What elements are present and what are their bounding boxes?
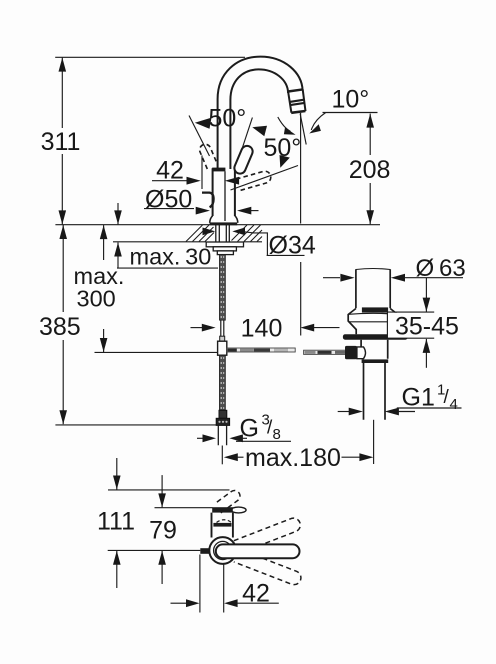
dimension max300 line lower [103, 329, 105, 352]
top extension line (spout apex level) [55, 56, 245, 58]
pivot outer circle [209, 537, 236, 564]
side view 79 upper arrow [161, 475, 163, 507]
dimension 311 line upper [61, 58, 63, 128]
dimension max300 line upper [103, 225, 105, 260]
body top dark band [212, 168, 225, 172]
50deg top arc left arrowhead [195, 118, 212, 129]
side view lever reference line [155, 507, 213, 509]
dimension 385 line lower [62, 340, 64, 424]
dimension 42 bottom right extension [223, 565, 225, 613]
side lever capsule [216, 544, 300, 558]
G1 1/4 dim right [385, 408, 399, 416]
svg-text:111: 111 [97, 508, 135, 536]
dimension 140 left [191, 327, 203, 329]
body base flare left [210, 216, 213, 223]
G38 dim right [229, 434, 243, 442]
flexible hose lower [220, 355, 226, 410]
G38 hose fitting hex [219, 410, 227, 418]
42 top arrowhead [187, 177, 201, 185]
dimension max30 lower arrow [117, 243, 119, 269]
svg-text:385: 385 [39, 313, 81, 341]
svg-text:42: 42 [242, 580, 270, 608]
dashed lever swung down [234, 549, 301, 585]
svg-text:max.180: max.180 [245, 444, 341, 472]
10deg arc right arrowhead [309, 124, 321, 133]
dimension 35-45 lower arrow [425, 339, 427, 368]
50deg fan right leg [237, 118, 252, 165]
plug stem [356, 269, 390, 308]
35-45 label box [388, 313, 457, 338]
G38 underline [236, 440, 291, 442]
side body inner dashed arc [217, 520, 232, 523]
35-45 box bottom line [387, 337, 434, 339]
dimension 42 top line [152, 180, 187, 182]
neck [356, 329, 390, 334]
svg-text:208: 208 [349, 156, 391, 184]
waste body [361, 340, 388, 359]
svg-text:G: G [240, 415, 259, 443]
50deg right arc upper arrowhead [252, 126, 267, 136]
50deg right arc lower arrowhead [280, 155, 290, 168]
faucet body outline [213, 168, 235, 216]
mounting nut [213, 247, 236, 251]
side rod nub [200, 548, 209, 554]
dimension 42 bottom left extension [199, 555, 201, 613]
dashed lever axis extension line [231, 166, 299, 191]
dimension 208 line upper [369, 114, 371, 155]
svg-text:4: 4 [450, 396, 458, 413]
140 right extension line [300, 262, 302, 336]
G38 thread tube [218, 425, 226, 445]
horizontal pop-up rod left [227, 348, 295, 352]
O50 right tail [250, 210, 259, 212]
aerator outlet line [291, 111, 305, 113]
flange [348, 309, 398, 330]
G1 1/4 dim left [338, 411, 349, 413]
dimension 311 line lower [61, 154, 63, 224]
aerator nozzle outline [288, 89, 305, 112]
svg-text:Ø 63: Ø 63 [416, 255, 466, 282]
svg-text:140: 140 [241, 315, 283, 343]
10deg arc right part [311, 113, 325, 130]
side view 111 upper arrow [116, 458, 118, 490]
dashed lever swung up [234, 518, 301, 553]
side view top reference line [108, 489, 230, 491]
solid lever [234, 146, 252, 174]
G38 hose fitting nut [216, 418, 229, 425]
max300 bottom reference line [95, 351, 218, 353]
svg-text:8: 8 [273, 426, 281, 443]
O34 left arrowhead [203, 228, 216, 236]
svg-text:50°: 50° [209, 105, 247, 133]
deck top line [55, 224, 380, 226]
knob collar [357, 347, 366, 359]
svg-text:35-45: 35-45 [395, 312, 459, 340]
dimension 140 right [300, 324, 314, 332]
horizontal pop-up rod right [304, 350, 346, 354]
side view rod reference line [108, 549, 201, 551]
O50 left arrowhead [196, 207, 210, 215]
deck bottom line [113, 241, 206, 243]
42 bottom dim right [224, 599, 238, 607]
svg-text:42: 42 [156, 157, 184, 185]
O50 right arrowhead [237, 207, 251, 215]
nozzle outlet extension line [300, 113, 302, 224]
plug cap band [362, 307, 388, 312]
nozzle axis extension line [300, 114, 306, 145]
dimension max30 upper arrow [117, 203, 119, 224]
max180 dim right arrowhead [342, 456, 361, 458]
svg-text:Ø50: Ø50 [145, 186, 192, 214]
svg-text:79: 79 [149, 517, 177, 545]
O34 leader [244, 232, 305, 256]
rod knob [345, 346, 357, 359]
max30 label underline [117, 267, 218, 269]
svg-text:50°: 50° [264, 134, 302, 162]
dimension 385 line upper [62, 225, 64, 312]
35-45 box top line [387, 311, 434, 313]
42 top extension line [201, 155, 203, 189]
10deg reference line [323, 112, 378, 114]
drain centerline [373, 420, 375, 464]
O63 dim line right / underline [391, 274, 405, 282]
rod cross fitting [220, 336, 225, 341]
threaded shank through deck [206, 225, 243, 255]
svg-text:max. 30: max. 30 [130, 244, 212, 270]
svg-text:311: 311 [41, 128, 81, 156]
G38 dim left [197, 437, 203, 439]
body cartridge line [224, 171, 226, 221]
dimension 208 line lower [369, 183, 371, 224]
side view 111 lower arrow [116, 551, 118, 588]
side lever tip ellipse [231, 507, 246, 513]
50deg arc left part [278, 117, 291, 132]
body base flare right [235, 216, 238, 223]
pop-rod hook behind body [202, 193, 214, 208]
aerator band line mid2 [290, 103, 304, 105]
spout inner curve [230, 69, 288, 169]
deck hatching [186, 225, 262, 242]
35-45 box left edge [386, 312, 388, 338]
body bottom band [362, 359, 389, 363]
385 bottom reference line [55, 424, 216, 426]
horseshoe washer [206, 242, 243, 247]
dashed lever up-left [200, 144, 218, 169]
aerator band line mid1 [290, 100, 304, 102]
O63 dim line left [323, 277, 340, 279]
aerator band line top [288, 89, 303, 91]
dashed spout side view [214, 491, 240, 513]
dimension 35-45 upper arrow [425, 278, 427, 312]
50deg arc left arrowhead [284, 128, 296, 135]
O34 right arrowhead [232, 228, 245, 236]
nut lower collar [217, 251, 233, 255]
side view 79 lower arrow [161, 551, 163, 584]
50deg fan left leg [189, 116, 210, 157]
tailpipe [364, 363, 386, 420]
max180 dim left arrowhead [224, 453, 238, 461]
faucet hose centerline lower [221, 446, 223, 465]
G1 1/4 underline [397, 407, 462, 409]
O50 underline [144, 208, 194, 210]
pivot inner circle [214, 541, 232, 559]
svg-text:Ø34: Ø34 [269, 232, 316, 260]
spout outer curve [218, 57, 303, 169]
dashed lever right [237, 171, 271, 190]
svg-text:G1: G1 [402, 384, 435, 412]
svg-text:10°: 10° [332, 86, 370, 114]
svg-text:300: 300 [77, 286, 116, 312]
42 bottom dim left [171, 602, 187, 604]
seat ring [343, 334, 408, 340]
side body [212, 513, 233, 538]
pop-up rod vertical [218, 320, 227, 355]
side body dark band [213, 523, 231, 527]
flexible hose upper [220, 255, 226, 321]
body base dark band [210, 222, 238, 225]
42 top right arrowhead [225, 177, 239, 185]
side lever closed dark bar [212, 507, 233, 512]
